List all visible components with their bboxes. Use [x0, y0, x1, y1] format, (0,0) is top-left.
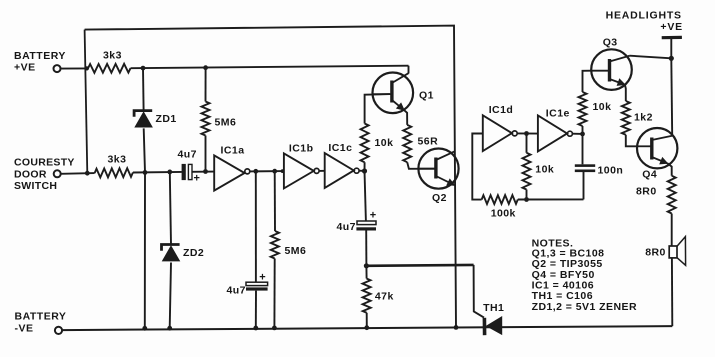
svg-text:TH1: TH1 — [483, 302, 504, 314]
svg-text:5M6: 5M6 — [215, 117, 237, 129]
svg-text:SWITCH: SWITCH — [14, 180, 57, 192]
svg-text:3k3: 3k3 — [103, 50, 122, 62]
svg-text:4u7: 4u7 — [227, 285, 246, 297]
svg-text:+: + — [370, 210, 376, 222]
svg-text:HEADLIGHTS: HEADLIGHTS — [606, 10, 682, 22]
svg-text:IC1c: IC1c — [328, 142, 352, 154]
svg-text:BATTERY: BATTERY — [14, 50, 66, 62]
svg-text:4u7: 4u7 — [178, 149, 197, 161]
svg-text:IC1a: IC1a — [221, 144, 245, 156]
svg-text:1k2: 1k2 — [634, 112, 653, 124]
svg-text:IC1d: IC1d — [489, 104, 514, 116]
svg-text:IC1b: IC1b — [289, 142, 314, 154]
svg-text:4u7: 4u7 — [337, 221, 356, 233]
svg-text:IC1e: IC1e — [546, 108, 570, 120]
svg-text:8R0: 8R0 — [636, 186, 657, 198]
svg-text:Q3: Q3 — [603, 36, 618, 48]
svg-text:47k: 47k — [375, 291, 394, 303]
svg-text:10k: 10k — [535, 164, 554, 176]
svg-text:BATTERY: BATTERY — [15, 311, 67, 323]
svg-text:10k: 10k — [593, 101, 612, 113]
svg-text:-VE: -VE — [15, 323, 34, 335]
svg-text:COURESTY: COURESTY — [14, 157, 75, 169]
svg-text:Q1: Q1 — [419, 89, 434, 101]
svg-text:Q4: Q4 — [642, 169, 657, 181]
svg-text:3k3: 3k3 — [108, 154, 127, 166]
svg-text:ZD2: ZD2 — [183, 247, 204, 259]
svg-text:+: + — [259, 272, 265, 284]
svg-text:ZD1: ZD1 — [156, 113, 177, 125]
svg-text:10k: 10k — [375, 137, 394, 149]
svg-text:+: + — [194, 173, 200, 185]
svg-text:5M6: 5M6 — [285, 245, 307, 257]
svg-text:8R0: 8R0 — [645, 246, 666, 258]
svg-text:56R: 56R — [418, 136, 439, 148]
svg-text:ZD1,2 = 5V1 ZENER: ZD1,2 = 5V1 ZENER — [532, 301, 637, 313]
svg-text:100k: 100k — [491, 208, 516, 220]
svg-text:+VE: +VE — [14, 62, 36, 74]
svg-text:Q2: Q2 — [432, 192, 447, 204]
svg-text:DOOR: DOOR — [14, 169, 47, 181]
svg-text:+VE: +VE — [660, 21, 683, 33]
svg-text:100n: 100n — [598, 165, 624, 177]
